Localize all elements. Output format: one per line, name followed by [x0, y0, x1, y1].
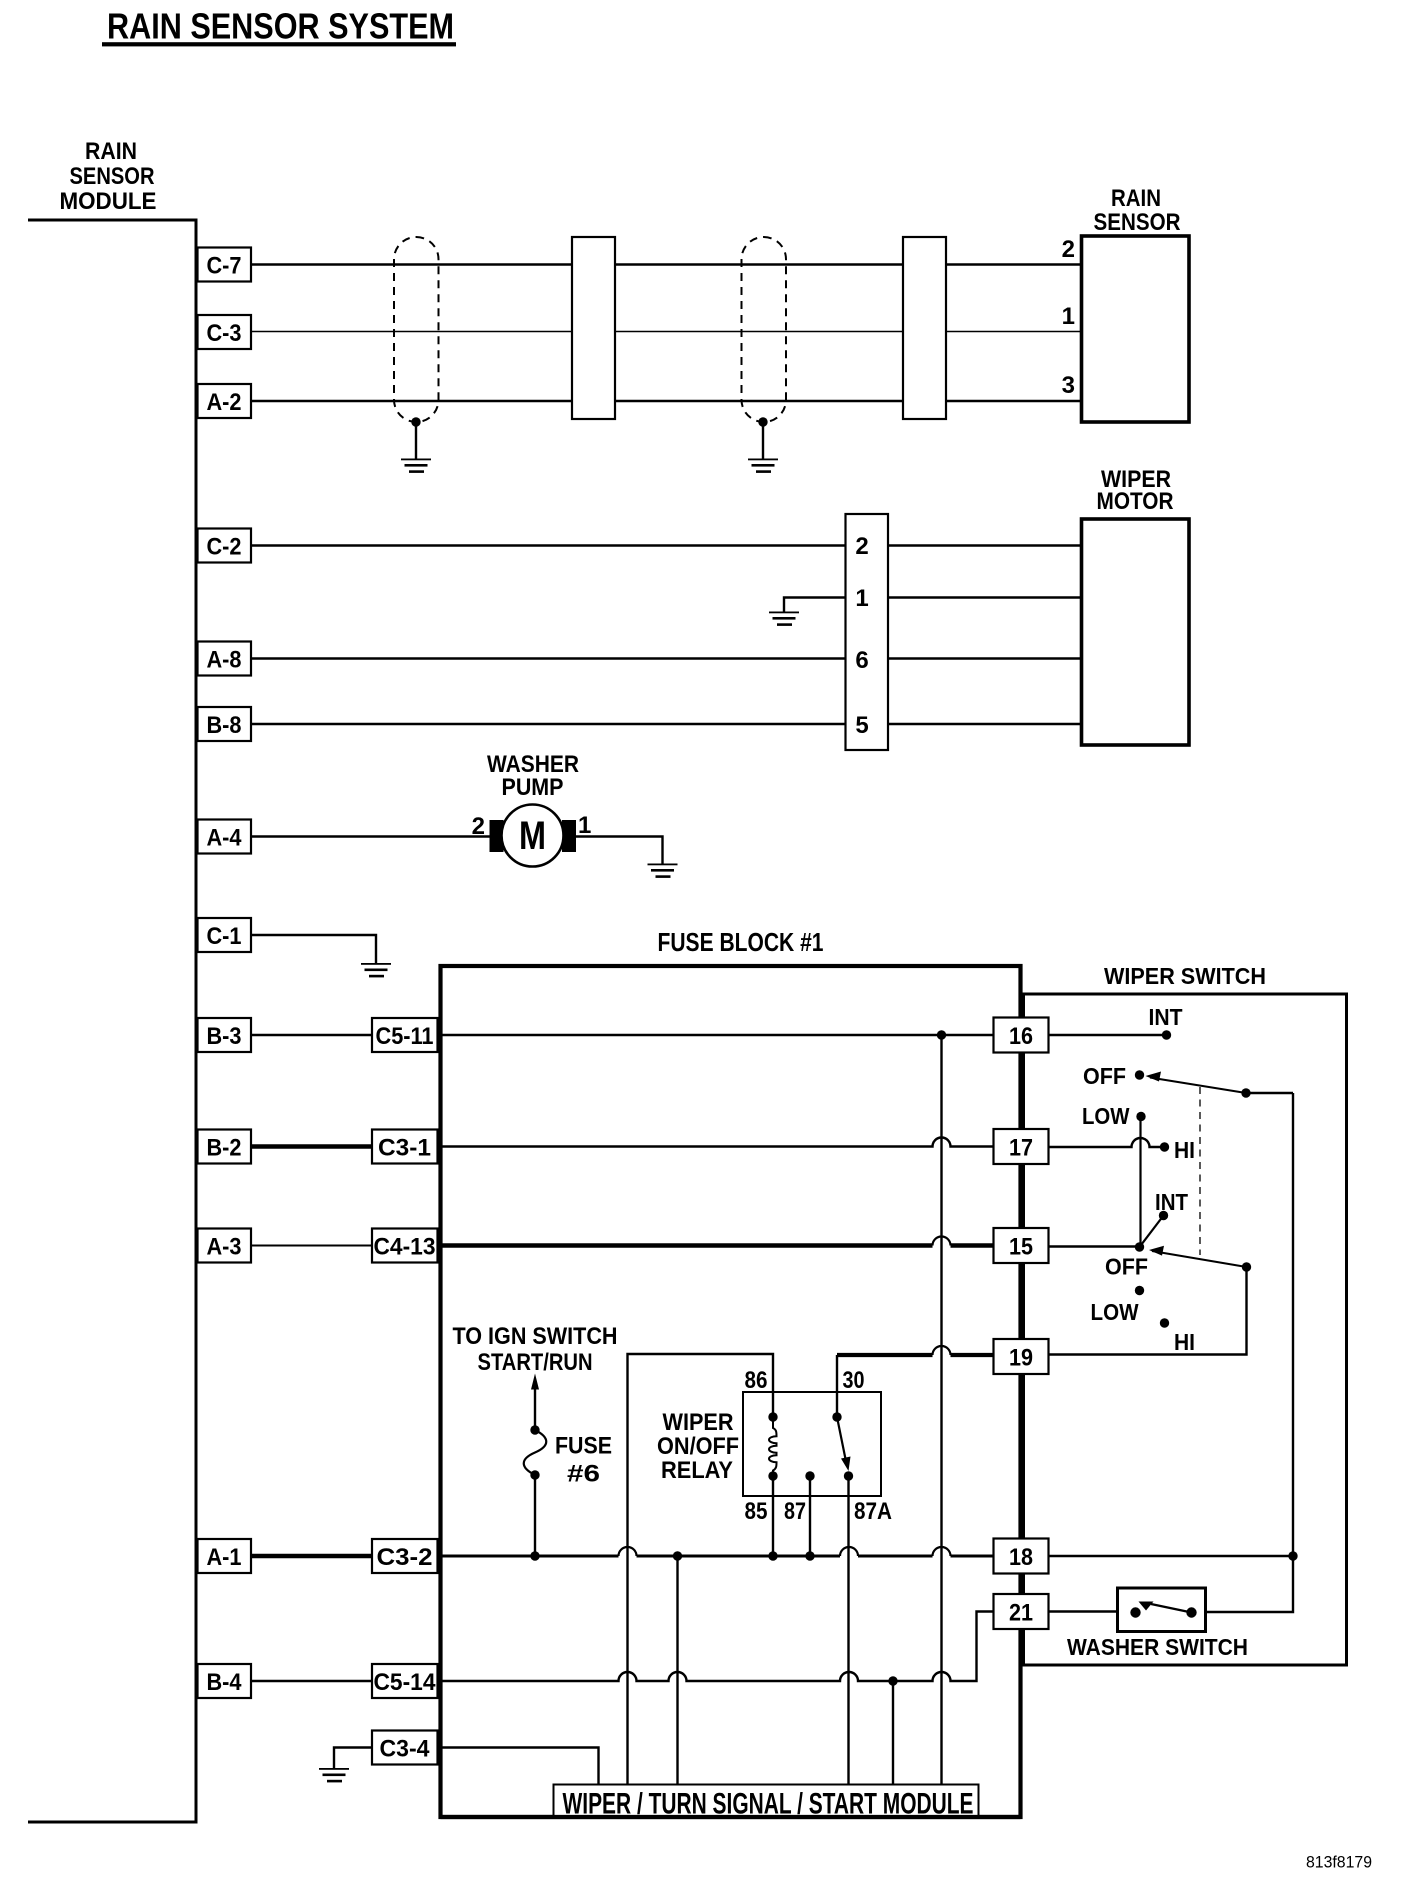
fuse #6 [524, 1425, 547, 1556]
node on wire C5-14 down to wiper/turn module [892, 1681, 894, 1786]
svg-text:A-3: A-3 [207, 1234, 242, 1261]
svg-text:1: 1 [855, 585, 868, 612]
svg-text:2: 2 [855, 533, 868, 560]
terminal 15 [994, 1228, 1049, 1263]
wire motor connector pin 1 to wiper motor [888, 596, 1082, 598]
svg-text:1: 1 [1062, 303, 1075, 330]
wire C3-2 to terminal 18 [440, 1555, 994, 1558]
shield capsule 1 drain junction [411, 417, 420, 426]
wire C5-14 to terminal 21 [440, 1612, 994, 1682]
rain sensor label [1094, 185, 1181, 236]
svg-text:ON/OFF: ON/OFF [657, 1433, 739, 1460]
svg-text:B-2: B-2 [207, 1135, 242, 1162]
connector C5-11 [372, 1018, 438, 1052]
svg-text:17: 17 [1009, 1135, 1033, 1162]
wire B-4 to C5-14 [251, 1680, 372, 1682]
node bus from terminal 16 down to wiper/turn module [940, 1035, 942, 1786]
wire terminal 16 to INT contact [1049, 1034, 1167, 1036]
svg-text:6: 6 [855, 647, 868, 674]
ground G2 (shield 2) [748, 459, 778, 473]
connector C3-2 [372, 1539, 438, 1573]
svg-text:OFF: OFF [1083, 1063, 1126, 1089]
connector C3-1 [372, 1130, 438, 1164]
wire A-4 to washer pump pin 2 [251, 835, 490, 837]
wire motor connector pin 2 to wiper motor [888, 544, 1082, 546]
wire C-1 to ground [251, 935, 376, 964]
module pin B-3 [198, 1018, 252, 1052]
junction node C3-2 branch [673, 1551, 682, 1560]
shield capsule 2 drain junction [758, 417, 767, 426]
svg-text:C3-1: C3-1 [378, 1135, 431, 1162]
junction 85 [768, 1551, 777, 1560]
wire B-3 to C5-11 [251, 1034, 372, 1036]
wire motor connector pin 1 to ground [784, 598, 846, 613]
wire terminal 18 to bus [1049, 1555, 1294, 1557]
fuse block bottom border [441, 1815, 1021, 1819]
junction 18/washer bus [1288, 1551, 1297, 1560]
wire pole 1 pivot to bus [1246, 1092, 1293, 1094]
module pin C-3 [198, 315, 252, 349]
ground G6 (C3-4) [319, 1768, 349, 1782]
svg-text:A-1: A-1 [207, 1544, 242, 1571]
svg-text:HI: HI [1174, 1329, 1195, 1355]
svg-text:RAIN: RAIN [1111, 185, 1161, 212]
fuse block #1 box [441, 966, 1021, 1817]
svg-text:C5-11: C5-11 [376, 1023, 434, 1050]
node on wire C3-2 down to wiper/turn module [676, 1556, 678, 1786]
svg-text:21: 21 [1009, 1600, 1033, 1627]
contact HI 2 [1160, 1318, 1169, 1327]
svg-text:C-3: C-3 [207, 320, 242, 347]
module pin C-1 [198, 918, 252, 952]
wire C-2 to motor connector pin 2 [251, 544, 846, 546]
svg-text:LOW: LOW [1091, 1299, 1139, 1325]
svg-text:HI: HI [1174, 1137, 1195, 1163]
wire relay 30 to terminal 19 (heavy) [836, 1355, 838, 1417]
svg-text:A-8: A-8 [207, 647, 242, 674]
wire A-2 to rain sensor pin 3 [251, 400, 1082, 402]
junction fuse to wire C3-2 [530, 1551, 539, 1560]
mechanical link (dashed) [1199, 1087, 1201, 1255]
shield capsule 2 (dashed) [742, 237, 787, 422]
svg-text:START/RUN: START/RUN [478, 1349, 593, 1376]
contact OFF 1 [1135, 1070, 1144, 1079]
contact LOW 1 [1136, 1112, 1145, 1121]
title RAIN SENSOR SYSTEM [102, 6, 456, 47]
svg-text:87: 87 [784, 1498, 806, 1525]
wire C3-4 to ground [334, 1748, 372, 1769]
svg-text:WIPER: WIPER [663, 1409, 734, 1436]
wire C-3 to rain sensor pin 1 [251, 331, 1082, 333]
svg-text:WIPER SWITCH: WIPER SWITCH [1104, 963, 1266, 989]
wiper on/off relay K1 [743, 1392, 881, 1496]
wire terminal 21 to washer switch [1049, 1610, 1119, 1612]
svg-text:85: 85 [745, 1498, 768, 1525]
rain sensor box [1082, 236, 1190, 422]
wiper switch box [1024, 994, 1347, 1665]
wire relay 86 to wiper/turn module [628, 1354, 774, 1786]
svg-text:RAIN: RAIN [85, 138, 137, 165]
contact INT 2 [1159, 1211, 1168, 1220]
wire relay 87A to wiper/turn module [847, 1476, 849, 1786]
svg-text:A-2: A-2 [207, 389, 242, 416]
svg-text:#6: #6 [567, 1461, 600, 1488]
svg-text:B-4: B-4 [207, 1669, 243, 1696]
svg-text:OFF: OFF [1105, 1254, 1148, 1280]
wire relay 87 to wire C3-2 [809, 1476, 811, 1556]
rain sensor module label [60, 138, 157, 215]
svg-text:B-8: B-8 [207, 712, 242, 739]
fuse #6 label [555, 1433, 612, 1488]
wiper motor box [1082, 519, 1190, 745]
inline connector 2 [903, 237, 946, 419]
ground G3 (wiper motor) [769, 612, 799, 626]
washer pump motor M1 [490, 805, 577, 867]
svg-text:LOW: LOW [1082, 1103, 1130, 1129]
wire relay 85 to wire C3-2 [772, 1476, 774, 1556]
wire B-8 to motor connector pin 5 [251, 723, 846, 725]
wire C3-4 to wiper/turn module [438, 1748, 599, 1787]
wire C4-13 to terminal 15 (heavy) [440, 1243, 933, 1247]
connector C5-14 [372, 1664, 438, 1698]
svg-text:INT: INT [1149, 1004, 1183, 1030]
terminal 18 [994, 1539, 1049, 1574]
wire terminal 17 to HI contact [1049, 1138, 1165, 1147]
svg-text:19: 19 [1009, 1345, 1033, 1372]
svg-text:A-4: A-4 [207, 825, 243, 852]
svg-text:C-7: C-7 [207, 253, 242, 280]
wiper on/off relay label [657, 1409, 739, 1484]
module pin B-4 [198, 1664, 252, 1698]
module pin A-8 [198, 642, 252, 676]
junction node C5-14 branch [888, 1676, 897, 1685]
svg-text:PUMP: PUMP [502, 774, 564, 801]
svg-text:813f8179: 813f8179 [1306, 1853, 1372, 1872]
svg-text:18: 18 [1009, 1544, 1033, 1571]
contact INT 1 [1162, 1030, 1171, 1039]
svg-text:C3-2: C3-2 [377, 1544, 433, 1571]
svg-text:1: 1 [578, 812, 591, 839]
wiper arm pole 2 (arrow to OFF 2) [1149, 1246, 1251, 1272]
svg-text:C4-13: C4-13 [374, 1234, 436, 1261]
shield capsule 1 drain wire [415, 422, 417, 459]
wire C3-1 to terminal 17 [440, 1138, 994, 1147]
svg-text:87A: 87A [854, 1498, 892, 1525]
module pin A-1 [198, 1539, 252, 1573]
svg-text:SENSOR: SENSOR [1094, 209, 1181, 236]
bus pole1 to washer switch / terminal 18 [1205, 1093, 1293, 1612]
svg-text:16: 16 [1009, 1023, 1033, 1050]
junction 87 [805, 1551, 814, 1560]
ground G5 (C-1) [361, 963, 391, 977]
wire C5-11 to terminal 16 [440, 1034, 994, 1036]
svg-text:2: 2 [472, 813, 485, 840]
svg-text:RELAY: RELAY [661, 1457, 733, 1484]
module pin A-4 [198, 820, 252, 854]
shield capsule 1 (dashed) [394, 237, 439, 422]
svg-text:RAIN SENSOR SYSTEM: RAIN SENSOR SYSTEM [107, 6, 454, 47]
svg-text:2: 2 [1062, 236, 1075, 263]
svg-text:TO IGN SWITCH: TO IGN SWITCH [453, 1323, 618, 1350]
pole 2 pivot [1135, 1242, 1144, 1251]
wire C-7 to rain sensor pin 2 [251, 263, 1082, 265]
terminal 21 [994, 1594, 1049, 1629]
contact LOW 2 [1135, 1286, 1144, 1295]
svg-text:C-2: C-2 [207, 534, 242, 561]
wire washer pump pin 1 to ground [575, 837, 663, 865]
terminal 17 [994, 1129, 1049, 1164]
module pin B-8 [198, 707, 252, 741]
module pin B-2 [198, 1130, 252, 1164]
wire LOW 1 to OFF 2 pivot [1139, 1117, 1141, 1248]
wire A-3 to C4-13 [251, 1245, 372, 1247]
junction on wire 16 [937, 1030, 946, 1039]
svg-text:FUSE BLOCK #1: FUSE BLOCK #1 [658, 927, 824, 957]
svg-text:MOTOR: MOTOR [1097, 488, 1174, 515]
svg-text:WASHER SWITCH: WASHER SWITCH [1067, 1634, 1248, 1660]
wire to ign switch start/run (arrow) [453, 1323, 618, 1430]
rain sensor module outline [28, 220, 196, 1822]
svg-text:C3-4: C3-4 [380, 1736, 431, 1763]
wiper/turn signal/start module box [554, 1785, 979, 1821]
terminal 16 [994, 1018, 1049, 1053]
svg-text:15: 15 [1009, 1234, 1033, 1261]
svg-text:3: 3 [1062, 372, 1075, 399]
svg-text:SENSOR: SENSOR [70, 163, 155, 190]
wiper motor label [1097, 466, 1174, 515]
wire INT 2 to pole 2 pivot [1140, 1216, 1164, 1248]
svg-text:86: 86 [745, 1367, 768, 1394]
washer pump label [487, 751, 579, 801]
ground G1 (shield 1) [401, 459, 431, 473]
contact HI 1 [1160, 1142, 1169, 1151]
shield capsule 2 drain wire [762, 422, 764, 459]
wire A-1 to C3-2 (heavy) [251, 1554, 372, 1558]
inline connector 1 [572, 237, 615, 419]
module pin A-3 [198, 1229, 252, 1263]
wiper arm pole 1 (arrow to OFF) [1146, 1072, 1251, 1098]
svg-text:M: M [519, 814, 546, 858]
svg-text:MODULE: MODULE [60, 188, 157, 215]
svg-text:B-3: B-3 [207, 1023, 242, 1050]
module pin C-2 [198, 529, 252, 563]
svg-text:C-1: C-1 [207, 923, 242, 950]
wire motor connector pin 5 to wiper motor [888, 723, 1082, 725]
connector C3-4 [372, 1731, 438, 1765]
wire pole 2 contact to terminal 19 [1049, 1267, 1247, 1355]
wire A-8 to motor connector pin 6 [251, 657, 846, 659]
wire motor connector pin 6 to wiper motor [888, 657, 1082, 659]
svg-text:FUSE: FUSE [555, 1433, 612, 1460]
wire B-2 to C3-1 (heavy) [251, 1144, 372, 1148]
module pin A-2 [198, 384, 252, 418]
wiper motor connector [846, 514, 889, 750]
svg-text:30: 30 [843, 1367, 865, 1394]
connector C4-13 [372, 1229, 438, 1263]
svg-text:C5-14: C5-14 [374, 1669, 437, 1696]
wire terminal 15 to pole 2 pivot [1049, 1245, 1140, 1247]
terminal 19 [994, 1339, 1049, 1374]
svg-text:INT: INT [1155, 1189, 1188, 1215]
ground G4 (washer pump) [648, 864, 678, 878]
washer switch S1 [1118, 1588, 1206, 1632]
svg-text:5: 5 [855, 712, 868, 739]
module pin C-7 [198, 248, 252, 282]
